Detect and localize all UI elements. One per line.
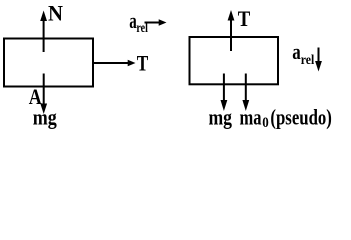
block A (left rectangle) (4, 39, 93, 87)
svg-text:mg: mg (33, 104, 57, 129)
arrow a_rel (right side, pointing down) (315, 48, 322, 72)
svg-text:mg: mg (209, 105, 233, 130)
label a_rel (top, relative acceleration) (129, 8, 148, 36)
svg-text:0: 0 (262, 115, 269, 131)
svg-text:T: T (137, 51, 149, 76)
force arrow T (tension, right) (93, 60, 136, 67)
force arrow T (tension, up, right block) (228, 10, 235, 51)
svg-text:rel: rel (301, 53, 315, 68)
svg-text:T: T (238, 6, 251, 31)
label ma0 (pseudo force) (240, 105, 269, 131)
svg-text:N: N (48, 0, 63, 25)
arrow a_rel (top, pointing right) (145, 19, 167, 26)
force arrow mg (weight, down, right block) (221, 74, 228, 112)
block B (right rectangle) (190, 37, 279, 84)
label a_rel (right side) (292, 39, 314, 68)
svg-text:a: a (292, 39, 301, 64)
svg-text:ma: ma (240, 105, 262, 130)
force arrow mg (weight, down, left block) (40, 74, 47, 115)
force arrow N (normal force, up) (40, 11, 47, 53)
svg-text:(pseudo): (pseudo) (270, 105, 332, 130)
force arrow ma0 (pseudo force, down, right block) (242, 74, 249, 112)
